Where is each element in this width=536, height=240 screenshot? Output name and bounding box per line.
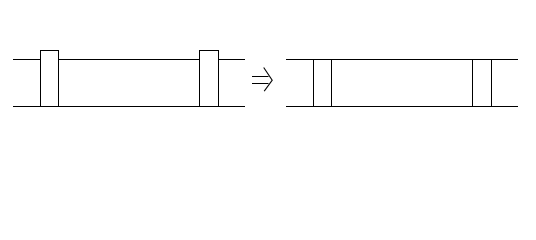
resonator element 2 (left figure, open-circuited stub rectangle): [200, 51, 219, 107]
wire: left figure bottom conductor: [13, 106, 245, 107]
transformation arrow (double arrow =>): [252, 68, 272, 92]
coupling gap line 4 (right figure): [491, 59, 492, 107]
wire: right figure bottom conductor: [286, 106, 518, 107]
coupling gap line 3 (right figure): [472, 59, 473, 107]
coupling gap line 1 (right figure): [313, 59, 314, 107]
wire: left figure top conductor: [13, 59, 245, 60]
resonator element 1 (left figure, open-circuited stub rectangle): [41, 51, 59, 107]
wire: right figure top conductor: [286, 59, 518, 60]
coupling gap line 2 (right figure): [331, 59, 332, 107]
